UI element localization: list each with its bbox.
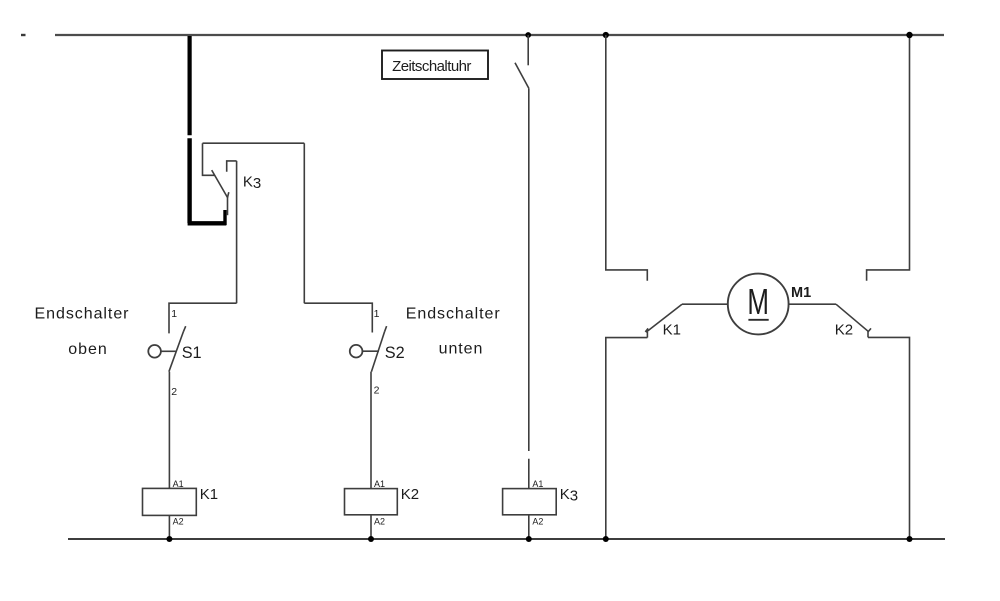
- svg-text:K1: K1: [200, 486, 218, 503]
- junction: right motor branch on L1: [906, 32, 912, 38]
- junction: timer branch on L1: [525, 32, 531, 38]
- wire: coil K1 to N: [168, 515, 170, 539]
- wire: stray dash left of rail L1: [21, 34, 26, 36]
- svg-text:A1: A1: [532, 479, 543, 489]
- wire: contact K3 output to S2 (horizontal): [203, 142, 305, 144]
- limit switch S2 (NC, Endschalter unten): [304, 303, 386, 372]
- wire: S2 to coil K2: [370, 372, 372, 489]
- wire: timer contact to coil K3: [528, 88, 530, 488]
- svg-text:K3: K3: [560, 486, 578, 505]
- svg-text:A2: A2: [374, 517, 385, 527]
- coil K2: [345, 489, 398, 515]
- contact K1 (NO, motor circuit): [645, 304, 682, 337]
- wire: motor to contact K2: [788, 303, 836, 305]
- contact K3 (NC relay contact, top-left): [203, 143, 237, 215]
- svg-text:K3: K3: [243, 174, 261, 193]
- svg-text:K2: K2: [401, 486, 419, 503]
- wire: S1 to coil K1: [168, 372, 170, 489]
- svg-text:A1: A1: [374, 479, 385, 489]
- coil K1: [143, 488, 197, 515]
- svg-text:S2: S2: [385, 344, 405, 362]
- contact: Zeitschaltuhr NO contact: [515, 35, 529, 88]
- limit switch S1 (NC, Endschalter oben): [148, 303, 236, 372]
- wire: thick stub up to contact K3 lower terminal: [223, 210, 226, 225]
- svg-text:Zeitschaltuhr: Zeitschaltuhr: [392, 58, 471, 75]
- wire: thick highlighted feed (lower segment with elbow): [188, 138, 227, 223]
- svg-text:Endschalter: Endschalter: [406, 306, 501, 323]
- svg-text:unten: unten: [439, 341, 484, 358]
- contact K2 (NO, motor circuit): [836, 304, 871, 337]
- function box Zeitschaltuhr: [382, 51, 488, 80]
- svg-text:A2: A2: [532, 517, 543, 527]
- wire: neutral rail N (bottom horizontal): [68, 538, 945, 540]
- svg-text:1: 1: [374, 308, 380, 320]
- junction: right motor branch on N: [907, 536, 913, 542]
- svg-text:2: 2: [374, 385, 380, 397]
- wire: thick highlighted feed from L1 (upper segment): [188, 36, 192, 135]
- svg-text:A2: A2: [173, 517, 184, 527]
- svg-text:1: 1: [171, 308, 177, 320]
- svg-text:Endschalter: Endschalter: [35, 306, 130, 323]
- junction: K2 on N: [368, 536, 374, 542]
- wire: phase rail L1 (top horizontal): [55, 34, 944, 36]
- svg-text:M: M: [747, 282, 769, 322]
- junction: left motor branch on N: [603, 536, 609, 542]
- svg-text:K1: K1: [663, 321, 681, 338]
- svg-text:2: 2: [171, 386, 177, 398]
- svg-text:oben: oben: [68, 341, 107, 358]
- wire: coil K2 to N: [370, 515, 372, 539]
- coil K3: [503, 489, 557, 515]
- motor M1: [728, 274, 789, 335]
- svg-text:K2: K2: [835, 321, 853, 338]
- svg-text:A1: A1: [173, 479, 184, 489]
- junction: K1 on N: [166, 536, 172, 542]
- wire: right motor branch lower to N: [868, 337, 910, 539]
- junction: K3 on N: [526, 536, 532, 542]
- svg-text:M1: M1: [791, 285, 811, 301]
- wire: left motor branch upper with terminal: [606, 35, 648, 281]
- wire: coil K3 to N: [528, 515, 530, 539]
- wire: contact K3 to S2 (vertical drop): [303, 143, 305, 303]
- wire: contact K3 hook down to S1: [236, 161, 238, 303]
- svg-text:S1: S1: [182, 344, 202, 362]
- wire: left motor branch lower to N: [606, 338, 648, 539]
- junction: left motor branch on L1: [603, 32, 609, 38]
- wire: contact K1 to motor: [682, 303, 728, 305]
- wire: right motor branch upper with terminal: [867, 35, 910, 281]
